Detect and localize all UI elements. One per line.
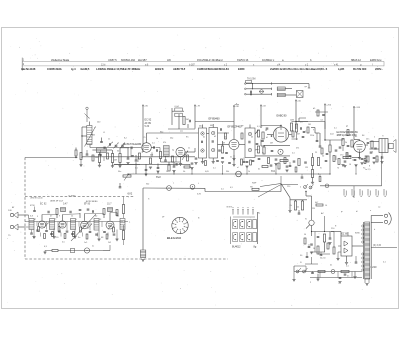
svg-text:220V~: 220V~: [375, 67, 383, 71]
resistor R10: [159, 152, 161, 159]
ground: [73, 236, 76, 238]
resistor R53: [122, 231, 124, 240]
capacitor C90: [86, 153, 89, 155]
svg-text:b1: b1: [203, 137, 206, 139]
capacitor C65: [216, 160, 219, 162]
svg-text:k: k: [300, 187, 301, 189]
svg-text:1k2: 1k2: [296, 207, 300, 209]
svg-text:16: 16: [313, 248, 315, 250]
wire: [381, 156, 383, 186]
svg-text:EF 80: EF 80: [84, 204, 91, 206]
resistor RD4: [338, 159, 340, 165]
wire: [239, 144, 245, 146]
wire: [267, 134, 273, 136]
svg-text:y: y: [310, 282, 312, 284]
tube B1b: [176, 147, 185, 156]
svg-text:+245: +245: [355, 107, 361, 109]
svg-text:10,7: 10,7: [107, 204, 112, 206]
resistor R22: [295, 124, 297, 132]
dashed bottom edge: [25, 258, 228, 260]
wire: [218, 144, 230, 146]
coil L11: [50, 219, 55, 230]
variable arrow L1: [85, 127, 96, 147]
wire: [320, 185, 382, 187]
fuse F1: [309, 220, 314, 225]
resistor R90: [92, 155, 94, 161]
wire diag2: [258, 185, 281, 198]
ground: [365, 283, 368, 285]
resistor R12: [183, 117, 185, 125]
wire: [381, 153, 383, 158]
capacitor C12: [175, 108, 183, 111]
resistor R34: [343, 156, 351, 158]
svg-text:6,3: 6,3: [230, 187, 234, 189]
node: [75, 157, 76, 158]
svg-text:EZ80: EZ80: [238, 67, 245, 71]
ground: [310, 251, 313, 253]
resistor R24: [263, 147, 265, 154]
capacitor CB5: [344, 273, 347, 275]
svg-text:EC92 EF80: EC92 EF80: [86, 201, 98, 203]
capacitor C62: [173, 165, 176, 167]
switch bank left rail: [230, 217, 232, 245]
wire: [359, 152, 361, 157]
capacitor CA6: [302, 136, 305, 138]
svg-text:B4: B4: [362, 135, 365, 137]
capacitor CC0: [50, 233, 53, 235]
svg-text:3n: 3n: [78, 237, 81, 239]
switch S1: [296, 270, 299, 273]
svg-text:BU4012: BU4012: [232, 245, 241, 248]
ground: [292, 278, 295, 280]
resistor R80: [38, 227, 40, 232]
capacitor C74: [298, 212, 301, 214]
wire: [311, 257, 313, 264]
svg-text:4n: 4n: [330, 265, 333, 267]
wire: [135, 162, 137, 174]
svg-text:CB: CB: [376, 160, 379, 162]
wire: [172, 110, 184, 112]
coil L12: [71, 219, 76, 230]
capacitor CD1: [301, 176, 304, 178]
ground: [212, 161, 215, 163]
svg-text:gr: gr: [341, 211, 343, 213]
wire: [143, 187, 205, 189]
wire: [173, 171, 175, 175]
resistor R3: [119, 154, 121, 163]
dial lamp LP1: [167, 186, 172, 191]
resistor R28: [317, 158, 319, 166]
terminal: [278, 149, 283, 154]
svg-text:EC 92: EC 92: [40, 204, 47, 206]
svg-text:d1: d1: [266, 137, 269, 139]
svg-text:+78: +78: [196, 106, 200, 108]
pot arrow P1: [182, 151, 188, 161]
capacitor CE0: [320, 254, 323, 256]
stubs: [103, 157, 105, 161]
svg-text:47k: 47k: [296, 148, 300, 150]
wire: [36, 222, 38, 227]
resistor R65: [284, 158, 286, 164]
svg-text:Sk2: Sk2: [146, 184, 150, 186]
capacitor CC8: [99, 154, 102, 156]
svg-text:50+50: 50+50: [320, 258, 326, 260]
capacitor C72: [100, 141, 103, 143]
svg-text:0,1: 0,1: [257, 126, 261, 128]
ground: [360, 162, 363, 164]
capacitor C11: [157, 167, 160, 169]
wire: [114, 164, 140, 166]
ground: [354, 164, 357, 166]
svg-text:EC: EC: [186, 137, 189, 139]
svg-text:0,1: 0,1: [383, 262, 387, 264]
resistor R45: [341, 270, 349, 272]
capacitor C37: [119, 186, 122, 188]
table rule 2: [22, 65, 384, 67]
capacitor C32: [367, 142, 370, 144]
svg-text:0,04: 0,04: [175, 106, 180, 108]
wire: [25, 226, 29, 228]
capacitor C99: [256, 143, 259, 145]
resistor RB0: [333, 156, 335, 162]
wire: [120, 147, 129, 149]
svg-text:UKW 87,5-100: UKW 87,5-100: [30, 198, 43, 200]
resistor R63: [241, 159, 243, 165]
svg-text:E: E: [335, 226, 337, 228]
capacitor C83: [103, 231, 106, 233]
svg-text:6,8: 6,8: [30, 216, 34, 218]
svg-text:e 41: e 41: [334, 63, 339, 66]
capacitor CB8: [30, 232, 33, 234]
svg-text:1W: 1W: [305, 167, 308, 169]
resistor R27: [311, 158, 313, 166]
ground: [194, 162, 197, 164]
resistor R43: [317, 246, 319, 254]
svg-text:30: 30: [300, 255, 303, 257]
resistor R94: [187, 155, 189, 161]
supply riser node V3: [233, 105, 235, 124]
resistor RE1: [327, 243, 329, 249]
wire: [103, 250, 110, 252]
coil L15: [61, 208, 66, 212]
capacitor C47: [311, 272, 314, 274]
svg-text:(6) 3,15: (6) 3,15: [373, 245, 382, 247]
svg-text:C5: C5: [143, 137, 146, 139]
capacitor C84: [33, 210, 36, 212]
wire: [146, 133, 148, 143]
wire: [335, 156, 337, 161]
coil L21: [277, 93, 285, 96]
capacitor C69: [319, 145, 322, 147]
svg-text:+60: +60: [297, 101, 301, 103]
svg-text:5: 5: [374, 137, 376, 139]
resistor R15: [221, 146, 223, 153]
svg-text:el: el: [237, 167, 239, 169]
svg-text:C: C: [55, 219, 57, 221]
capacitor C13: [188, 120, 190, 123]
svg-text:L40MHz 460kHz 10,7MHz ZF 468kH: L40MHz 460kHz 10,7MHz ZF 468kHz: [96, 67, 141, 71]
resistor R95: [225, 133, 227, 139]
rectifier block: [341, 236, 352, 256]
variable capacitor C3: [115, 144, 118, 146]
tube B2: [229, 140, 239, 150]
switch S2: [303, 270, 306, 273]
svg-text:g2: g2: [346, 126, 349, 128]
svg-text:KW5,9 16: KW5,9 16: [237, 58, 249, 62]
transformer primary: [362, 222, 364, 279]
capacitor C95: [175, 163, 177, 166]
capacitor C31: [347, 145, 350, 147]
wire: [338, 251, 341, 253]
capacitor CC9: [289, 165, 292, 167]
svg-text:EF 85/460: EF 85/460: [209, 117, 221, 121]
wire: [145, 170, 147, 175]
table rule right tick: [383, 61, 385, 66]
svg-text:EZ 80: EZ 80: [342, 234, 349, 236]
svg-text:I II III IV: I II III IV: [226, 207, 233, 209]
svg-text:2W: 2W: [312, 208, 315, 210]
svg-text:13 ti: 13 ti: [101, 63, 106, 66]
IF can T3: [245, 128, 255, 158]
wire: [89, 145, 91, 148]
wire: [41, 215, 43, 221]
svg-text:kHz187: kHz187: [138, 58, 147, 62]
resistor RA8: [321, 148, 323, 154]
resistor R96: [241, 133, 243, 139]
svg-text:C4605 22db: C4605 22db: [47, 67, 62, 71]
capacitor C93: [153, 146, 155, 149]
svg-text:30n: 30n: [118, 171, 121, 173]
svg-text:0,05: 0,05: [205, 171, 210, 173]
svg-text:L: L: [198, 183, 200, 185]
svg-text:0,02: 0,02: [330, 134, 335, 136]
capacitor CD6: [373, 157, 376, 159]
svg-text:osz: osz: [180, 131, 183, 133]
svg-text:30k: 30k: [226, 171, 230, 173]
wire: [370, 141, 380, 143]
wire: [246, 88, 272, 90]
wire: [352, 245, 363, 247]
ground: [221, 161, 224, 163]
wire: [324, 129, 326, 140]
svg-text:AF 89: AF 89: [145, 122, 152, 125]
tube B3: [273, 127, 288, 142]
wire: [324, 242, 326, 252]
resistor R51: [103, 209, 105, 215]
wire diag: [281, 184, 290, 198]
wire: [296, 132, 298, 140]
svg-text:30: 30: [117, 151, 120, 153]
wire: [365, 144, 369, 146]
capacitor C15: [225, 152, 228, 154]
svg-text:8g: 8g: [254, 245, 257, 248]
capacitor C16: [261, 140, 264, 142]
svg-text:AT: AT: [12, 206, 15, 209]
ground: [172, 170, 175, 172]
capacitor C80: [45, 230, 48, 232]
bottom wire: [294, 271, 362, 273]
switch bank pins: [232, 210, 234, 215]
tube socket B-view: [172, 217, 188, 233]
resistor RA1: [262, 166, 268, 168]
supply riser node V5: [295, 100, 297, 126]
resistor RC5: [106, 234, 108, 239]
capacitor C26: [304, 161, 307, 163]
svg-text:150-250kHz 49mBand: 150-250kHz 49mBand: [197, 58, 223, 62]
capacitor C73: [130, 147, 132, 150]
resistor R25: [280, 159, 288, 161]
svg-text:ZF: ZF: [162, 217, 165, 219]
wire: [319, 272, 321, 278]
AVC rail: [82, 156, 195, 158]
ground: [328, 242, 331, 244]
variable capacitor C4: [121, 144, 124, 146]
resistor R33: [371, 141, 373, 148]
svg-text:Rö 5St 300: Rö 5St 300: [353, 67, 367, 71]
resistor R84: [52, 250, 58, 252]
stub: [46, 222, 48, 230]
svg-text:5p: 5p: [172, 150, 175, 152]
tuning diagonal: [71, 214, 96, 241]
svg-text:Tr: Tr: [382, 135, 384, 138]
svg-text:0,47: 0,47: [63, 204, 68, 206]
svg-text:EZ80: EZ80: [355, 233, 361, 235]
wire: [311, 127, 315, 129]
svg-text:CH85 EF89 EABC80 EL84: CH85 EF89 EABC80 EL84: [197, 67, 229, 71]
wire: [246, 166, 248, 174]
ground: [179, 163, 182, 165]
ferrite antenna L1: [87, 126, 92, 145]
resistor R41: [301, 201, 303, 210]
speaker terminal row: [343, 189, 345, 196]
svg-text:5-30: 5-30: [145, 126, 150, 128]
svg-text:1k: 1k: [350, 132, 352, 134]
svg-text:70: 70: [337, 168, 340, 170]
wire: [189, 164, 191, 168]
svg-text:8a: 8a: [258, 213, 261, 215]
resistor RA5: [292, 131, 294, 137]
wire: [305, 266, 307, 272]
coil L13: [94, 219, 99, 231]
resistor R11: [168, 165, 170, 171]
electrolytic C35: [236, 171, 242, 177]
svg-text:EL: EL: [355, 136, 358, 138]
svg-text:5k: 5k: [224, 137, 226, 139]
svg-text:240: 240: [97, 122, 101, 124]
svg-text:0,1: 0,1: [346, 266, 350, 268]
capacitor C76: [355, 261, 358, 263]
wire: [246, 93, 272, 95]
wire: [90, 147, 141, 149]
capacitor C94: [164, 159, 167, 161]
svg-text:4xAM,5: 4xAM,5: [80, 67, 90, 71]
wire: [233, 155, 235, 160]
wire: [289, 205, 291, 210]
svg-text:NSF: NSF: [252, 183, 257, 185]
wire: [151, 147, 155, 149]
capacitor C22: [303, 131, 306, 133]
resistor R40: [294, 201, 296, 210]
wire: [202, 125, 204, 129]
svg-text:2x2000 4x120 25m 31m 41m 49m B: 2x2000 4x120 25m 31m 41m 49m Band KW L 6: [270, 67, 328, 71]
tube B4: [354, 141, 366, 153]
svg-text:68: 68: [101, 237, 104, 239]
svg-text:2x: 2x: [92, 246, 94, 248]
capacitor C61: [135, 159, 138, 161]
wire: [82, 135, 87, 137]
svg-text:2k2: 2k2: [108, 242, 111, 244]
wire: [331, 231, 334, 233]
svg-text:b2: b2: [214, 136, 217, 138]
svg-text:82: 82: [95, 216, 98, 218]
resistor R69: [75, 150, 77, 156]
resistor R42: [323, 234, 325, 242]
resistor R91: [107, 153, 109, 159]
wire: [142, 188, 144, 250]
wire: [346, 256, 348, 262]
svg-text:25n: 25n: [366, 139, 370, 141]
capacitor C71: [365, 155, 368, 157]
ground: [364, 160, 367, 162]
capacitor C91: [103, 147, 105, 150]
svg-text:a: a: [370, 210, 372, 212]
ground: [343, 164, 346, 166]
ground: [52, 236, 55, 238]
svg-text:8-2: 8-2: [124, 138, 128, 140]
resistor R70: [316, 204, 323, 206]
ground: [341, 164, 344, 166]
capacitor C81: [66, 230, 69, 232]
resistor R36: [252, 188, 259, 190]
svg-text:3: 3: [37, 216, 38, 218]
wire: [355, 165, 357, 174]
ground: [358, 156, 361, 158]
wire: [342, 139, 344, 141]
power extra: [308, 246, 311, 248]
svg-text:9: 9: [59, 216, 60, 218]
svg-text:AZ: AZ: [321, 212, 324, 215]
wire: [68, 250, 104, 252]
capacitor C41: [260, 90, 264, 94]
svg-text:B402 8: B402 8: [155, 67, 164, 71]
winding bumps 2: [362, 253, 364, 255]
wire: [156, 147, 161, 149]
wire: [329, 158, 331, 175]
resistor R21: [290, 123, 292, 131]
resistor R16: [257, 130, 259, 137]
svg-text:6,3V: 6,3V: [197, 194, 202, 196]
resistor R93: [172, 156, 174, 162]
svg-text:16,8MHz x: 16,8MHz x: [262, 58, 275, 62]
ground: [285, 169, 288, 171]
wire: [311, 213, 313, 220]
wire: [324, 122, 326, 130]
wire: [260, 140, 262, 147]
svg-text:AE80 T/U!: AE80 T/U!: [173, 67, 185, 71]
ground: [32, 236, 35, 238]
capacitor C75: [329, 237, 332, 239]
supply riser node V4: [260, 105, 262, 129]
wire: [275, 164, 277, 175]
svg-text:Si: Si: [305, 219, 307, 221]
resistor R31: [342, 139, 344, 146]
capacitor CA7: [316, 140, 319, 142]
resistor R44: [318, 270, 325, 272]
resistor RD7: [367, 156, 369, 162]
wire: [168, 128, 195, 130]
capacitor C17: [221, 157, 224, 159]
svg-text:bl: bl: [356, 211, 358, 213]
